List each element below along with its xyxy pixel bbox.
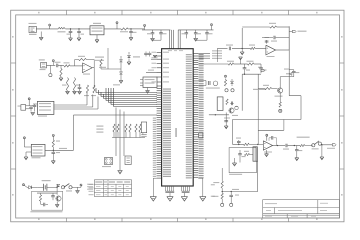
ground U5 bbox=[24, 152, 31, 160]
wire box net bbox=[37, 192, 57, 195]
pin map table bbox=[94, 180, 131, 197]
resistor R23 bbox=[212, 188, 223, 203]
driver box bbox=[217, 97, 223, 111]
op-amp U7 bbox=[266, 45, 276, 57]
diode D7 bbox=[57, 184, 60, 188]
wire speaker down bbox=[256, 161, 258, 191]
title block bbox=[263, 200, 340, 218]
mcu U600 body bbox=[162, 49, 194, 186]
wire bus drop 2 bbox=[119, 110, 121, 171]
diode D2 bbox=[120, 69, 123, 81]
capacitor C5 bbox=[159, 30, 166, 39]
wire vert x289 upper bbox=[288, 26, 290, 95]
resistor R20 bbox=[226, 99, 228, 105]
transistor Q2 bbox=[275, 88, 283, 97]
ground D2 bbox=[119, 81, 123, 84]
wire U6 out bbox=[273, 145, 286, 146]
net label right of mcu bbox=[211, 184, 215, 197]
data bus wires bbox=[96, 88, 157, 107]
capacitor C1 bbox=[67, 29, 73, 38]
eeprom U3 bbox=[140, 77, 157, 88]
junction dot bbox=[70, 28, 71, 29]
capacitor C10 bbox=[78, 84, 82, 94]
ground mcu left bbox=[150, 178, 156, 201]
capacitor C22 bbox=[236, 138, 241, 145]
ground C15 bbox=[51, 161, 55, 164]
wire vcc rail left bbox=[142, 29, 170, 31]
wire C5 return bbox=[153, 38, 162, 40]
wire y48 row bbox=[217, 47, 266, 49]
capacitor C25 bbox=[295, 146, 302, 158]
resistor R19 bbox=[224, 79, 226, 87]
wire driver down bbox=[224, 113, 228, 127]
resistor R30 bbox=[39, 193, 41, 201]
ground U6 bbox=[265, 150, 269, 157]
resistor R2 bbox=[59, 65, 63, 80]
box caption bbox=[30, 211, 62, 212]
feedback wire U2 bbox=[75, 60, 95, 68]
power flag P10 bbox=[76, 184, 82, 187]
wire rail y119 bbox=[233, 119, 302, 121]
resistor R22 bbox=[213, 176, 223, 188]
pads xtal bbox=[225, 89, 234, 92]
resistor R3 series bbox=[64, 62, 71, 67]
wire x257 down bbox=[257, 100, 258, 145]
capacitor C16 bbox=[243, 64, 250, 74]
wire U4 rx bbox=[54, 95, 93, 108]
mode select text bbox=[96, 126, 103, 133]
wire audio in bbox=[47, 64, 56, 66]
wire U7 top rail bbox=[242, 26, 289, 28]
resistor R14 bbox=[129, 124, 131, 132]
wire rail up x222 bbox=[221, 168, 223, 176]
net text right bbox=[253, 67, 266, 90]
ground C4 bbox=[151, 38, 155, 41]
border zone labels bbox=[12, 12, 343, 220]
amp box label bbox=[229, 174, 242, 175]
ground C6 C7 bbox=[194, 38, 198, 41]
resistor R27 bbox=[300, 144, 313, 146]
capacitor C19 bbox=[238, 150, 245, 163]
capacitor C21 bbox=[289, 70, 299, 77]
capacitor C18 bbox=[230, 102, 234, 106]
resistor R24 base bbox=[258, 85, 277, 90]
power flag P6 bbox=[23, 137, 31, 147]
ground U3 bbox=[146, 88, 150, 94]
transistor Q3 bbox=[56, 196, 61, 201]
capacitor C24 series bbox=[283, 144, 289, 150]
wire mic out bbox=[258, 120, 284, 131]
bus lower wire bbox=[74, 114, 158, 116]
power flag P9 bbox=[23, 184, 28, 188]
wire U1 out bbox=[104, 28, 121, 30]
U6 power bbox=[266, 134, 268, 141]
wire rtc to mcu bbox=[45, 115, 74, 151]
connector J3 bbox=[18, 105, 30, 111]
testpoint TP1 bbox=[49, 65, 52, 76]
net box right ladder bbox=[199, 133, 203, 138]
wire bus drop 3 bbox=[123, 112, 125, 157]
zener D3 bbox=[127, 52, 131, 65]
pad gnd 1 bbox=[221, 203, 224, 206]
audio jack J2 bbox=[39, 59, 47, 70]
resistor R4 feedback bbox=[78, 56, 86, 61]
wire U4 ctl bbox=[54, 97, 98, 110]
ground y48 bbox=[240, 48, 244, 55]
resistor R5 bbox=[62, 78, 69, 92]
wire battery drop bbox=[56, 187, 58, 194]
backup box bbox=[32, 191, 63, 210]
inductor L1 bbox=[58, 27, 66, 32]
speaker LS2 bbox=[253, 147, 257, 161]
resistor R18 bbox=[247, 61, 254, 65]
input wire U6 bbox=[233, 144, 244, 145]
resistor R8 bbox=[91, 85, 96, 96]
mcu ref text bbox=[175, 128, 177, 137]
ground mcu bottom 2 bbox=[181, 193, 187, 202]
diode D5 bbox=[284, 69, 292, 76]
U6 feedback cap C23 bbox=[269, 136, 277, 146]
mcu left pins upper bbox=[157, 52, 162, 86]
capacitor C28 bbox=[51, 194, 55, 200]
driver label bbox=[224, 115, 238, 119]
wire to C3 bbox=[128, 28, 144, 30]
capacitor C15 bbox=[52, 141, 61, 161]
transistor Q1 bbox=[229, 108, 234, 113]
ground U4 area bbox=[31, 113, 35, 116]
wire to mcu pin bbox=[151, 57, 158, 59]
op-amp U2 bbox=[83, 63, 93, 75]
mcu left pin names bbox=[152, 50, 184, 177]
wire IC top pins left bbox=[170, 30, 174, 49]
resistor R9 bbox=[100, 59, 102, 69]
wire to opamp bbox=[70, 65, 83, 67]
mcu bottom pins bbox=[165, 186, 189, 193]
junction dot bbox=[131, 28, 132, 29]
resistor R10 bbox=[52, 137, 54, 153]
wire U7 fb vert bbox=[241, 28, 243, 48]
voltage regulator U1 bbox=[90, 23, 104, 35]
switch SW3 bbox=[297, 137, 322, 150]
ground driver bbox=[224, 126, 228, 129]
wire U4 tx bbox=[54, 93, 87, 106]
battery BT1 bbox=[37, 180, 57, 191]
buzzer LS1 bbox=[235, 106, 239, 110]
ground U1 bbox=[95, 35, 99, 43]
bias parts U7 bbox=[265, 37, 270, 43]
resistor R15 bbox=[135, 124, 137, 132]
power flag P1 bbox=[49, 24, 51, 29]
power flag P5 bbox=[28, 98, 30, 106]
pad gnd 2 bbox=[230, 203, 233, 206]
mic pad MK1 bbox=[279, 109, 282, 112]
resistor R17 bbox=[227, 61, 234, 65]
ground SW area bbox=[118, 171, 123, 174]
wire Q2 collector bbox=[280, 77, 289, 88]
ground C25 bbox=[295, 158, 299, 161]
ground above wire bbox=[239, 57, 243, 64]
resistor R25 emitter bbox=[279, 93, 281, 107]
ground C2 bbox=[77, 38, 81, 41]
diode D4 bbox=[231, 79, 234, 86]
capacitor C26 series bbox=[226, 45, 233, 51]
power flag P2 bbox=[116, 22, 118, 29]
wire after C24 bbox=[288, 145, 300, 146]
connector J4 bbox=[125, 156, 131, 165]
ground C11 bbox=[153, 55, 156, 57]
capacitor C11 bbox=[144, 52, 148, 57]
flag audio out2 bbox=[289, 30, 306, 32]
resistor R6 bbox=[73, 78, 80, 92]
mcu right net stubs bbox=[198, 50, 222, 59]
capacitor C17 bbox=[259, 64, 266, 73]
power jack J1 bbox=[29, 23, 37, 35]
wire filter bottom bbox=[242, 74, 261, 75]
flag right mid bbox=[261, 69, 265, 71]
capacitor C3 bbox=[129, 29, 136, 38]
wire resistor commons bbox=[112, 132, 145, 138]
wire drop x242 bbox=[241, 74, 243, 111]
junction dot bbox=[79, 28, 80, 29]
wire x217 drop bbox=[216, 48, 218, 62]
resistor R28 bbox=[249, 45, 255, 50]
wire U2 out bbox=[92, 68, 94, 88]
wire vcc rail right bbox=[178, 29, 213, 31]
power flag P11 bbox=[52, 60, 54, 66]
wire node bbox=[95, 48, 121, 69]
wire drop x258 bbox=[257, 74, 259, 100]
resistor R11 bbox=[113, 124, 115, 132]
capacitor C13 bbox=[29, 106, 33, 112]
resistor R21 bbox=[244, 151, 253, 156]
power flag P4 bbox=[211, 24, 213, 30]
sheet inner border bbox=[16, 15, 340, 218]
flag audio output bbox=[327, 144, 336, 149]
ground amp box bbox=[232, 158, 236, 166]
resistor R26 input bbox=[244, 143, 264, 145]
capacitor C20 bbox=[229, 192, 239, 204]
capacitor C4 bbox=[147, 30, 154, 39]
resistor R12 bbox=[117, 124, 119, 132]
net label bbox=[95, 56, 140, 85]
note text bbox=[87, 184, 93, 190]
capacitor C8 bbox=[196, 30, 213, 40]
rtc module U5 bbox=[31, 144, 45, 158]
capacitor C27 fb bbox=[262, 36, 289, 42]
resistor R13 bbox=[125, 124, 127, 132]
crystal Y1 bbox=[198, 81, 220, 89]
resistor R1 series bbox=[120, 28, 128, 33]
ground at jack bbox=[39, 32, 43, 41]
capacitor C9 series bbox=[55, 62, 65, 67]
wire IC top pins right bbox=[178, 30, 180, 49]
wire driver base bbox=[209, 114, 229, 115]
switch SW2 bbox=[102, 158, 113, 168]
capacitor C6 bbox=[182, 30, 189, 39]
ground C3 bbox=[129, 38, 133, 41]
switch SW4 bbox=[61, 184, 76, 192]
mcu left pins lower bbox=[157, 89, 162, 179]
wire U7 out bbox=[276, 26, 290, 50]
wire rail corner bbox=[232, 120, 234, 145]
wire power rail bbox=[36, 28, 90, 30]
capacitor C12 bbox=[148, 52, 152, 57]
ground R5 bbox=[66, 91, 70, 94]
resistor R29 feedback bbox=[269, 23, 277, 28]
capacitor C7 bbox=[194, 30, 201, 39]
ground SW4 bbox=[76, 187, 80, 193]
component left of mcu bbox=[141, 122, 146, 136]
mcu right pins bbox=[193, 54, 198, 178]
interface chip U4 bbox=[37, 101, 54, 116]
ground mcu right bbox=[198, 178, 206, 201]
resistor R16 bbox=[139, 124, 141, 132]
power flag P8 bbox=[225, 75, 227, 77]
capacitor C14 bbox=[33, 104, 38, 112]
diode D6 series bbox=[27, 186, 37, 189]
ground C1 bbox=[69, 38, 73, 41]
mcu right pin names bbox=[186, 54, 204, 178]
table row labels bbox=[89, 184, 94, 195]
wire filter row bbox=[198, 63, 261, 65]
wire after SW3 bbox=[321, 144, 333, 145]
capacitor C29 bbox=[41, 201, 49, 206]
wire mic loop bbox=[289, 96, 301, 120]
ground mcu bottom 1 bbox=[167, 193, 173, 202]
power flag P3 bbox=[144, 24, 146, 30]
ground R6 bbox=[73, 91, 77, 94]
power flag P7 bbox=[52, 134, 54, 136]
wire bus drop 1 bbox=[115, 108, 117, 157]
diode D1 bbox=[120, 56, 123, 69]
ground box bbox=[55, 202, 59, 208]
amp box outline bbox=[229, 148, 256, 173]
ground SW3 bbox=[320, 145, 324, 160]
wire to mcu pin2 bbox=[146, 70, 157, 73]
resistor R7 bbox=[84, 85, 89, 96]
op-amp U6 bbox=[263, 141, 272, 153]
wire y191.5 bbox=[222, 189, 258, 192]
capacitor C2 bbox=[77, 29, 84, 38]
